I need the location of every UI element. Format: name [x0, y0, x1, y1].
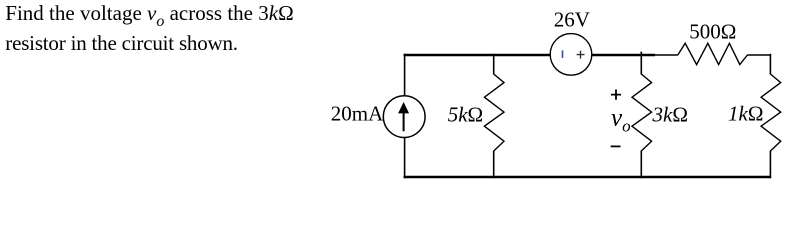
wire: top segment into 500 ohm resistor: [655, 54, 678, 56]
resistor 1k zigzag: [761, 74, 781, 151]
resistor 3k zigzag: [632, 74, 652, 151]
wire: left vertical upper segment: [404, 54, 406, 96]
resistor R 5k zigzag: [484, 74, 504, 151]
wire: 5k branch top stub: [493, 54, 495, 75]
wire: 3k branch bottom stub: [640, 151, 642, 179]
wire: 5k branch bottom stub: [493, 151, 495, 179]
svg-text:26V: 26V: [554, 8, 590, 32]
wire: top horizontal left segment: [404, 54, 551, 56]
wire: top horizontal middle segment: [592, 54, 656, 56]
voltage source V1 minus bar: [562, 50, 564, 58]
svg-text:vo: vo: [611, 105, 631, 136]
wire: right vertical top stub: [769, 54, 771, 75]
wire: left vertical lower segment: [404, 137, 406, 178]
current source I1 arrow shaft: [403, 112, 405, 132]
wire: 3k branch top stub: [640, 52, 642, 75]
svg-text:20mA: 20mA: [331, 101, 384, 125]
svg-text:resistor in the circuit shown.: resistor in the circuit shown.: [5, 31, 238, 55]
plus sign of vo: [611, 90, 621, 100]
wire: bottom horizontal: [404, 176, 771, 178]
minus sign of vo: [611, 145, 621, 147]
svg-text:Find the voltage vo across the: Find the voltage vo across the 3kΩ: [5, 1, 293, 30]
current source I1 arrow head: [398, 102, 409, 113]
wire: top segment from 500 ohm resistor to top-right corner: [747, 54, 771, 56]
svg-text:3kΩ: 3kΩ: [652, 103, 688, 127]
wire: right vertical bottom stub: [769, 151, 771, 179]
svg-text:5kΩ: 5kΩ: [448, 103, 483, 127]
svg-text:500Ω: 500Ω: [689, 19, 736, 43]
current source I1 circle: [383, 96, 425, 138]
svg-text:1kΩ: 1kΩ: [728, 102, 763, 126]
voltage source V1 plus sign: [577, 51, 585, 59]
resistor 500 ohm zigzag: [678, 43, 748, 64]
voltage source V1 26V circle: [550, 34, 592, 76]
